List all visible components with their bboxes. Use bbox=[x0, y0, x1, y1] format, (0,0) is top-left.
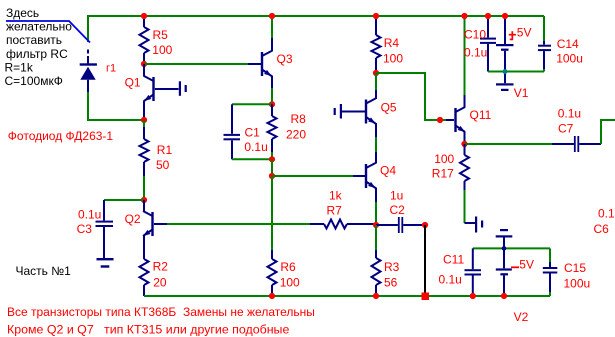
wire Q2 base bbox=[154, 223, 310, 225]
node V2-bottom bbox=[501, 293, 507, 299]
svg-text:C6: C6 bbox=[594, 222, 610, 236]
svg-text:Кроме Q2 и Q7 тип КТ315 или: Кроме Q2 и Q7 тип КТ315 или другие подоб… bbox=[7, 323, 289, 337]
label R6 bbox=[280, 260, 300, 290]
Q5 base dead-end bbox=[334, 104, 365, 119]
svg-text:100u: 100u bbox=[556, 52, 583, 66]
wire C7 out bbox=[601, 120, 615, 144]
label C11 bbox=[439, 253, 465, 287]
node V1-gnd teal bbox=[503, 69, 508, 74]
label Q3 bbox=[277, 52, 293, 66]
label R1 bbox=[156, 143, 172, 172]
ground under C3 bbox=[97, 258, 114, 268]
node R6-bottom bbox=[269, 293, 275, 299]
resistor R17 bbox=[460, 144, 469, 223]
svg-text:R=1k: R=1k bbox=[5, 60, 34, 74]
capacitor C15 bbox=[543, 248, 558, 296]
svg-text:100: 100 bbox=[280, 276, 300, 290]
svg-text:R4: R4 bbox=[384, 36, 400, 50]
node R4-bottom bbox=[373, 70, 379, 76]
svg-text:1k: 1k bbox=[329, 188, 343, 202]
wire Q11 emitter to C7 bbox=[465, 143, 553, 145]
node R7-C2 bbox=[373, 222, 379, 228]
transistor Q11 bbox=[454, 16, 465, 144]
svg-text:R3: R3 bbox=[384, 260, 400, 274]
node V1-top bbox=[502, 13, 508, 19]
svg-text:0.1u: 0.1u bbox=[558, 106, 581, 120]
svg-text:56: 56 bbox=[384, 275, 398, 289]
wire neg group top bbox=[473, 247, 550, 249]
svg-text:1u: 1u bbox=[390, 188, 403, 202]
svg-text:Q1: Q1 bbox=[125, 75, 141, 89]
label V1 bbox=[514, 86, 529, 100]
label C15 bbox=[564, 261, 591, 291]
label Q5 bbox=[381, 101, 397, 115]
svg-text:220: 220 bbox=[286, 128, 306, 142]
transistor Q1 bbox=[144, 64, 155, 120]
resistor R6 bbox=[268, 176, 277, 296]
svg-text:V2: V2 bbox=[514, 310, 529, 324]
wire C3 top bbox=[104, 199, 144, 201]
label +5V bbox=[509, 25, 532, 40]
label R3 bbox=[384, 260, 400, 289]
svg-text:г1: г1 bbox=[106, 63, 116, 75]
label Q11 bbox=[470, 108, 492, 122]
svg-text:C10: C10 bbox=[464, 28, 486, 42]
svg-text:Q4: Q4 bbox=[380, 164, 396, 178]
label R7 bbox=[327, 188, 343, 217]
label C7 bbox=[558, 106, 581, 135]
node R5-bottom bbox=[141, 61, 147, 67]
wire top +5V rail bbox=[88, 15, 544, 17]
node C2-right bbox=[422, 222, 428, 228]
label R5 bbox=[152, 28, 172, 57]
node Q11-collector-top bbox=[461, 13, 467, 19]
note transistors line2 bbox=[7, 323, 289, 337]
svg-text:C3: C3 bbox=[77, 222, 93, 236]
wire C1 bottom bbox=[232, 158, 272, 160]
wire R8 to node bbox=[271, 159, 273, 176]
resistor R3 bbox=[372, 225, 381, 296]
label D1 bbox=[106, 63, 116, 75]
transistor Q4 bbox=[365, 152, 376, 225]
resistor R2 bbox=[140, 259, 149, 296]
node top-R5 bbox=[141, 13, 147, 19]
svg-text:R6: R6 bbox=[280, 260, 296, 274]
label Q2 bbox=[125, 212, 141, 226]
node Q3-collector bbox=[269, 13, 275, 19]
capacitor C11 bbox=[465, 248, 482, 296]
wire photodiode top bbox=[87, 15, 89, 42]
resistor R5 bbox=[140, 16, 149, 64]
svg-text:R17: R17 bbox=[432, 167, 454, 181]
svg-text:Фотодиод ФД263-1: Фотодиод ФД263-1 bbox=[8, 129, 114, 143]
label Q1 bbox=[125, 75, 141, 89]
capacitor C14 bbox=[538, 16, 551, 72]
svg-text:C14: C14 bbox=[557, 37, 579, 51]
capacitor C3 bbox=[96, 200, 114, 258]
svg-text:V1: V1 bbox=[514, 86, 529, 100]
svg-text:5V: 5V bbox=[517, 25, 532, 39]
node Q11-emitter bbox=[461, 141, 467, 147]
wire C1 top bbox=[232, 103, 272, 105]
capacitor C7 bbox=[552, 136, 601, 152]
svg-text:100: 100 bbox=[152, 43, 172, 57]
svg-text:Q2: Q2 bbox=[125, 212, 141, 226]
svg-text:0.1u: 0.1u bbox=[78, 207, 101, 221]
node C10-top bbox=[485, 13, 491, 19]
svg-text:C2: C2 bbox=[390, 203, 406, 217]
capacitor C1 bbox=[224, 104, 241, 159]
node R8-bottom bbox=[269, 156, 275, 162]
Q1 base dead-end bbox=[155, 81, 187, 96]
label C2 bbox=[390, 188, 406, 217]
transistor Q3 bbox=[261, 16, 272, 104]
label photodiode type bbox=[8, 129, 114, 143]
svg-text:100: 100 bbox=[383, 52, 403, 66]
label C10 bbox=[464, 28, 487, 60]
label R8 bbox=[286, 112, 306, 142]
label C6 bbox=[594, 206, 615, 236]
transistor Q2 bbox=[143, 200, 154, 259]
node top-R4 bbox=[373, 13, 379, 19]
label C1 bbox=[244, 126, 267, 155]
svg-text:C15: C15 bbox=[564, 261, 586, 275]
wire gnd mid bbox=[488, 71, 544, 73]
resistor R7 bbox=[324, 220, 376, 229]
wire R4 to Q11 base bbox=[376, 73, 454, 120]
wire photodiode bottom bbox=[88, 92, 144, 120]
battery V1 bbox=[496, 16, 514, 91]
node C11-bottom bbox=[470, 293, 476, 299]
svg-text:фильтр RC: фильтр RC bbox=[6, 47, 68, 61]
svg-text:Q5: Q5 bbox=[381, 101, 397, 115]
node Q3-emitter bbox=[269, 101, 275, 107]
node Q4-base-tap bbox=[269, 173, 275, 179]
wire R7 input bbox=[310, 223, 324, 225]
svg-text:0.1u: 0.1u bbox=[598, 206, 615, 220]
svg-text:R7: R7 bbox=[327, 204, 343, 218]
note text filter RC bbox=[5, 6, 73, 88]
svg-text:поставить: поставить bbox=[6, 33, 62, 47]
node Q11-base bbox=[437, 117, 443, 123]
wire Q3 base bbox=[144, 63, 261, 65]
resistor R1 bbox=[140, 120, 149, 200]
label R2 bbox=[153, 260, 169, 290]
node R1-bottom bbox=[141, 197, 147, 203]
svg-text:R2: R2 bbox=[153, 260, 169, 274]
svg-text:R1: R1 bbox=[157, 143, 173, 157]
svg-text:C11: C11 bbox=[443, 253, 464, 267]
capacitor C10 bbox=[480, 16, 496, 72]
transistor Q5 bbox=[365, 73, 376, 152]
node C2-bottom square bbox=[422, 293, 430, 301]
resistor R8 bbox=[268, 104, 277, 159]
svg-text:100: 100 bbox=[434, 152, 454, 166]
label Q4 bbox=[380, 164, 396, 178]
svg-text:0.1u: 0.1u bbox=[464, 45, 487, 59]
svg-text:5V: 5V bbox=[519, 258, 534, 272]
label V2 bbox=[514, 310, 529, 324]
label part number bbox=[16, 264, 72, 278]
svg-text:желательно: желательно bbox=[6, 20, 72, 34]
svg-text:R8: R8 bbox=[291, 112, 307, 126]
svg-text:Q11: Q11 bbox=[470, 108, 492, 122]
wire C2 down black bbox=[424, 225, 426, 296]
label C14 bbox=[556, 37, 583, 66]
svg-text:0.1u: 0.1u bbox=[439, 273, 462, 287]
svg-text:50: 50 bbox=[156, 158, 170, 172]
node R3-bottom bbox=[373, 293, 379, 299]
svg-text:0.1u: 0.1u bbox=[244, 140, 267, 154]
svg-text:Q3: Q3 bbox=[277, 52, 293, 66]
svg-text:100u: 100u bbox=[564, 277, 591, 291]
label C3 bbox=[77, 207, 102, 236]
label -5V bbox=[511, 258, 534, 272]
battery V2 bbox=[496, 229, 513, 296]
photodiode D1 bbox=[80, 50, 97, 93]
svg-text:C=100мкФ: C=100мкФ bbox=[5, 74, 63, 88]
leader line note bbox=[6, 21, 90, 43]
svg-text:20: 20 bbox=[153, 275, 167, 289]
svg-text:C1: C1 bbox=[245, 126, 261, 140]
svg-text:R5: R5 bbox=[153, 28, 169, 42]
node Q1-emitter bbox=[141, 117, 147, 123]
svg-text:Часть №1: Часть №1 bbox=[16, 264, 72, 278]
wire bottom rail bbox=[144, 295, 550, 297]
svg-text:Здесь: Здесь bbox=[6, 6, 39, 20]
wire Q4 base bbox=[272, 175, 365, 177]
capacitor C2 bbox=[376, 217, 425, 233]
R17 dead-end bbox=[465, 217, 484, 233]
label R4 bbox=[383, 36, 403, 65]
resistor R4 bbox=[372, 16, 381, 73]
svg-text:C7: C7 bbox=[558, 121, 574, 135]
note transistors line1 bbox=[7, 305, 315, 319]
label R17 bbox=[432, 152, 455, 181]
svg-text:Все транзисторы типа КТ368Б З: Все транзисторы типа КТ368Б Замены не же… bbox=[7, 305, 315, 319]
